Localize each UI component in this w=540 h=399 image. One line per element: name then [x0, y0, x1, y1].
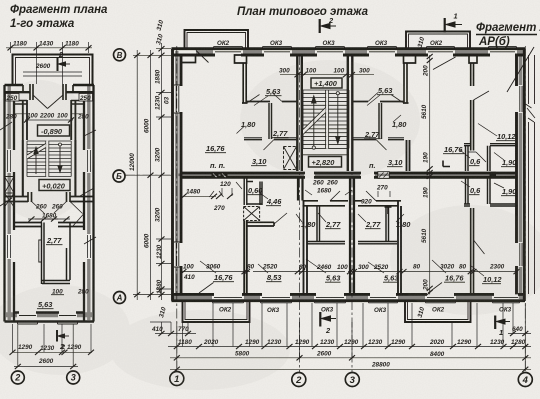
right inner partition lower: [67, 223, 71, 281]
bottom wall window sills protruding down: [213, 302, 520, 304]
dim row 2: [170, 357, 531, 359]
dim row 640: [508, 333, 531, 335]
partition 1,80/2,77 apt1: [269, 103, 272, 139]
fragment break marks: [0, 122, 96, 244]
corner pilaster top-left: [181, 55, 196, 63]
landing gap between flights: [326, 91, 328, 149]
axis 1: [176, 46, 178, 371]
entrance side posts: [23, 84, 73, 100]
bottom windows: [19, 315, 76, 317]
dim line 12000: [136, 50, 138, 300]
junction blob at right corridor: [490, 172, 497, 179]
left wall windows glazing: [176, 86, 179, 266]
stair arrows: [312, 92, 340, 150]
bath block bottom wall apt1: [244, 139, 297, 141]
corner mark top-right room: [443, 161, 450, 167]
bottom exterior wall outer line: [172, 299, 526, 302]
wall band infill (scan darkening): [6, 51, 524, 320]
door swing 8,53 hall: [274, 213, 287, 224]
left exterior wall: [3, 85, 5, 322]
right exterior wall outer line: [523, 49, 526, 301]
lower partition vertical: [42, 223, 45, 285]
1480 dim: [184, 195, 217, 197]
right exterior wall: [92, 85, 94, 322]
fragment porch canopy: [13, 55, 93, 85]
section 2 top: [319, 19, 321, 33]
dim line 6000/6000: [150, 50, 152, 300]
vent shaft with X: [244, 207, 260, 221]
adjacent building section lines beyond axis 4: [529, 55, 535, 294]
section 1 top right: [444, 18, 446, 33]
section 1 bottom right: [494, 316, 496, 330]
interior dim lines: [181, 196, 516, 271]
vent pipe T symbol: [385, 207, 392, 214]
bath bottom wall left: [307, 242, 345, 244]
fragment bottom dims: [12, 324, 92, 367]
lower rooms: horizontal wall: [14, 223, 42, 227]
fragment dim 260/260/1680 ticks: [28, 218, 70, 220]
small dim arrows near 270 door: [210, 188, 391, 197]
stub wall right of shaft: [247, 222, 274, 226]
axis 3: [351, 55, 353, 372]
dim row 3 (28800): [170, 368, 531, 370]
leader to fragment2 area: [507, 47, 534, 92]
extension leaders from wall: [125, 55, 171, 294]
underlines for area labels: [205, 95, 517, 284]
fragment stairs: [27, 141, 71, 177]
ticks left dims: [134, 46, 164, 297]
left exterior wall outer line: [171, 49, 174, 301]
axis 2: [299, 55, 301, 372]
door leaf in partition: [39, 240, 42, 262]
left dim labels (rotated): [129, 19, 426, 319]
bath divider right: [386, 206, 389, 242]
top wall window glazing: [215, 51, 515, 53]
stair flight boundaries: [303, 90, 349, 148]
dim line detail chain: [161, 43, 163, 300]
apartment divider below (axis 3): [350, 179, 354, 295]
bath bottom wall right: [358, 242, 397, 244]
vent boxes in middle wall apt1: [212, 172, 219, 178]
fragment labels: [0, 0, 1, 1]
wall right of 5,63 room2: [398, 201, 401, 295]
bath block bottom wall apt2: [352, 139, 404, 141]
balcony bottom-left: [183, 301, 250, 322]
bottom wall: [5, 320, 95, 323]
boxed level marks fragment: [38, 125, 70, 136]
stair steps: [303, 90, 349, 148]
scan noise overlay: [0, 0, 1, 1]
corridor wall below middle (left apt of axis3): [303, 201, 349, 206]
partition kitchen bottom apt1: [246, 101, 297, 103]
axis 4: [524, 46, 526, 372]
door swing into 2,77: [330, 191, 340, 201]
pier pilaster right apt: [469, 55, 477, 63]
bottom exterior wall inner line with window gaps: [172, 293, 526, 296]
balcony top-right: [406, 32, 470, 49]
corridor wall right of axis3: [354, 201, 401, 206]
wall left of 5,63 room1: [304, 201, 308, 295]
bottom wall window glazing: [214, 297, 518, 299]
niches 250 at top: [14, 101, 84, 105]
stairwell left wall: [297, 55, 302, 171]
hatched vent box right: [378, 172, 390, 179]
fragment section 2 arrow bottom: [57, 330, 69, 351]
right wall window glazing: [520, 86, 522, 266]
right wall window glazing: [88, 150, 91, 258]
left wall window glazing: [8, 150, 11, 258]
partition corridor apt2 / room 16,76: [407, 140, 410, 171]
door swing balcony bottom-left room: [199, 283, 214, 294]
section 2 bottom: [319, 312, 321, 327]
top exterior wall inner line with window gaps: [172, 54, 526, 57]
partition kitchen bottom apt2: [352, 101, 404, 103]
right exterior wall inner line with window gaps: [515, 55, 518, 294]
entrance door swings: [33, 95, 63, 109]
label leader lines: [200, 95, 504, 276]
door swing 10,12: [474, 91, 490, 100]
door swing 5,63 apt1: [248, 95, 260, 103]
top exterior wall outer line: [172, 47, 526, 50]
stair left wall extension below: [298, 179, 303, 201]
partition above bath top-right: [464, 144, 517, 146]
porch inner platform lines: [23, 72, 82, 76]
axis Б horizontal: [125, 174, 171, 176]
partition 16,76/10,12 bottom-right: [471, 208, 474, 294]
left exterior wall inner line with window gaps: [180, 55, 183, 294]
apt2 mirrored: partition 5,63 kitchen: [403, 63, 409, 103]
balcony top-left: [185, 30, 249, 49]
bath top-right walls: [466, 146, 491, 171]
pier pilaster left apt: [235, 55, 247, 63]
middle wall (axis Б) with door gaps: [181, 172, 517, 175]
partition 2,77/1,80 apt2: [379, 103, 382, 139]
fragment axis circles: [11, 371, 79, 384]
dim row small (410/770): [155, 333, 196, 335]
bottom-right apartment mirrored bath: [464, 204, 517, 206]
pier pilaster apt2: [404, 55, 416, 63]
top wall window sills protruding up: [214, 46, 517, 48]
wall between 16,76 and 8,53: [244, 221, 247, 295]
fragment top dim line 1180/1430/1180: [6, 42, 92, 84]
partition 16,76 / 5,63 (apt1): [242, 63, 248, 103]
door swing bath: [476, 152, 486, 162]
bottom interior chain dim line: [181, 271, 516, 273]
door swing balcony bottom-right room: [428, 283, 442, 294]
stair enclosure side walls: [23, 100, 76, 140]
door swings below stairs: [32, 202, 85, 227]
door swing from 2,77 up: [272, 93, 282, 102]
landing edge line: [302, 154, 348, 156]
dim row 1: [168, 346, 531, 348]
fragment niche dims 2200 ticks: [14, 114, 84, 120]
balcony bottom-right: [405, 301, 471, 322]
fragment building top wall with entrance opening: [5, 84, 95, 324]
wall below stairs with door openings: [5, 192, 95, 202]
stair cut (diagonal break) on left flight: [303, 108, 326, 135]
door swing 2,77 down: [264, 140, 275, 151]
top-right apartment partition 16,76/10,12: [471, 63, 474, 151]
bath divider 1,80/2,77 left: [317, 206, 320, 242]
stairwell right wall: [348, 55, 353, 171]
fragment shaft with X on left wall: [5, 177, 15, 208]
door swing top-left balcony: [196, 51, 209, 63]
extension lines down: [162, 303, 526, 370]
wall above 5,63: [42, 281, 70, 284]
door swing top-right balcony: [433, 57, 456, 70]
closet 0,60 bottom-left apt: [244, 179, 262, 206]
vent shaft next to stair left wall: [284, 147, 297, 170]
